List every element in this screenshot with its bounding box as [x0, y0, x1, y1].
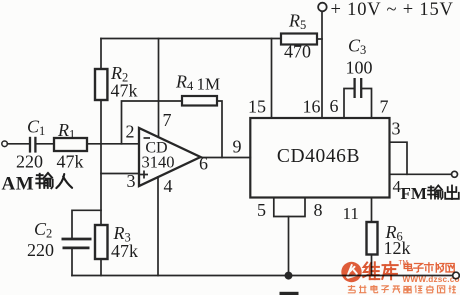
wire R5 right lead [317, 38, 322, 40]
label AM input : glyph shu (输) [36, 173, 52, 188]
svg-text:4: 4 [164, 176, 173, 196]
wire R3 bottom lead [100, 259, 102, 276]
svg-text:8: 8 [314, 200, 323, 220]
svg-text:+ 10V ~ + 15V: + 10V ~ + 15V [331, 0, 454, 20]
wire chip pin4 to FM terminal [390, 173, 452, 175]
svg-text:6: 6 [199, 154, 208, 174]
wire input to C1 [7, 143, 28, 145]
wire ground rail [72, 275, 453, 277]
wire pin6 to C3 left [344, 89, 353, 119]
input terminal [2, 141, 8, 147]
wire C2 top lead [72, 210, 101, 238]
svg-text:WWW.dzsc.com: WWW.dzsc.com [403, 275, 460, 284]
ground rail right terminal [453, 272, 460, 279]
svg-text:6: 6 [330, 96, 339, 116]
capacitor C2 [62, 239, 92, 248]
svg-text:470: 470 [284, 42, 311, 62]
svg-text:12k: 12k [384, 238, 411, 258]
wire R2 top lead [100, 39, 102, 70]
ground symbol [280, 292, 299, 295]
wire power line terminal to pin16 [321, 11, 323, 118]
wire U link to ground [288, 217, 290, 276]
resistor R4 [182, 96, 217, 106]
op-amp inverting minus mark [144, 137, 151, 139]
svg-text:47k: 47k [111, 241, 138, 261]
watermark glyph ku (库) [382, 262, 397, 279]
wire R6 bottom lead [371, 255, 373, 276]
wire pin5 pin8 U link [274, 198, 305, 217]
wire top supply rail [101, 38, 281, 40]
wire C2 bottom lead [71, 249, 73, 276]
wire op-amp pin4 to ground rail [157, 177, 159, 276]
label FM output : glyph shu (输) [428, 186, 443, 199]
wire C1 to R1 [36, 143, 54, 145]
watermark text dianzishichangwang (电子市场网) [404, 263, 454, 272]
capacitor C1 [30, 137, 35, 153]
svg-text:100: 100 [346, 58, 373, 78]
resistor R6 [367, 222, 378, 255]
wire R2 bottom to R3 top (bias column) [100, 100, 102, 225]
wire op-amp pin7 supply drop [158, 39, 160, 138]
glyph dian [404, 263, 412, 271]
svg-text:2: 2 [126, 122, 135, 142]
svg-text:9: 9 [233, 137, 242, 157]
WATERMARK group [341, 260, 460, 293]
svg-text:16: 16 [303, 97, 321, 117]
resistor R5 [281, 34, 317, 45]
watermark logo circle [341, 262, 361, 282]
op-amp non-inverting plus mark [140, 171, 148, 179]
svg-text:FM: FM [401, 184, 427, 203]
svg-text:CD4046B: CD4046B [277, 146, 360, 167]
svg-text:47k: 47k [57, 152, 84, 172]
resistor R2 [95, 69, 107, 100]
watermark glyph wei (维) [363, 262, 379, 279]
svg-text:3: 3 [392, 119, 401, 139]
wire op-amp output to chip pin9 [201, 157, 251, 159]
svg-text:AM: AM [2, 174, 35, 195]
resistor R1 [54, 138, 87, 151]
power terminal [318, 3, 327, 12]
svg-text:220: 220 [16, 152, 43, 172]
wire chip pin3 jog [390, 142, 408, 174]
resistor R3 [95, 225, 108, 259]
glyph wang [446, 264, 454, 272]
svg-text:7: 7 [380, 97, 389, 117]
wire pin3 to bias column [101, 173, 139, 175]
wire R1 to pin2 [87, 143, 139, 145]
wire C3 right to pin7 [362, 89, 371, 119]
wire R4 left lead and drop to pin2 node [122, 101, 183, 144]
svg-text:47k: 47k [111, 81, 138, 101]
junction dot at ground node [285, 272, 293, 280]
svg-text:3: 3 [127, 171, 136, 191]
wire pin11 to R6 [371, 198, 373, 223]
watermark bottom slogan (专业电子元器件交易网站) [348, 285, 456, 293]
glyph shi [425, 263, 434, 272]
svg-text:1M: 1M [197, 75, 221, 94]
svg-text:7: 7 [163, 110, 172, 130]
FM output terminal [452, 171, 458, 177]
op-amp U1 CD3140 triangle [139, 128, 201, 186]
label AM input : glyph ru (入) [56, 174, 72, 188]
svg-text:15: 15 [248, 97, 266, 117]
wire R4 right lead and drop to output node [217, 101, 222, 158]
glyph chang [436, 263, 444, 272]
capacitor C3 [355, 78, 362, 98]
label FM output : glyph chu (出) [445, 186, 459, 200]
svg-text:5: 5 [257, 200, 266, 220]
wire pin15 drop from rail [271, 39, 273, 119]
svg-text:220: 220 [27, 240, 54, 260]
IC U2 CD4046B box [250, 118, 389, 198]
svg-text:TM: TM [399, 260, 408, 267]
glyph zi [414, 264, 423, 273]
svg-text:11: 11 [343, 204, 359, 223]
svg-text:3140: 3140 [142, 153, 175, 172]
